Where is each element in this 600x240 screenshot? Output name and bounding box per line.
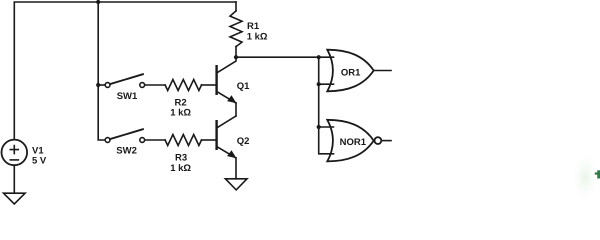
svg-text:Q1: Q1 [237,81,250,92]
svg-text:R3: R3 [175,153,187,164]
svg-text:OR1: OR1 [341,68,361,79]
svg-text:1 kΩ: 1 kΩ [247,32,268,43]
svg-text:SW1: SW1 [117,91,138,102]
svg-text:NOR1: NOR1 [340,137,367,148]
svg-text:5 V: 5 V [32,156,47,167]
svg-text:1 kΩ: 1 kΩ [170,163,191,174]
svg-text:Q2: Q2 [237,136,250,147]
svg-text:SW2: SW2 [116,145,137,156]
svg-text:1 kΩ: 1 kΩ [170,108,191,119]
